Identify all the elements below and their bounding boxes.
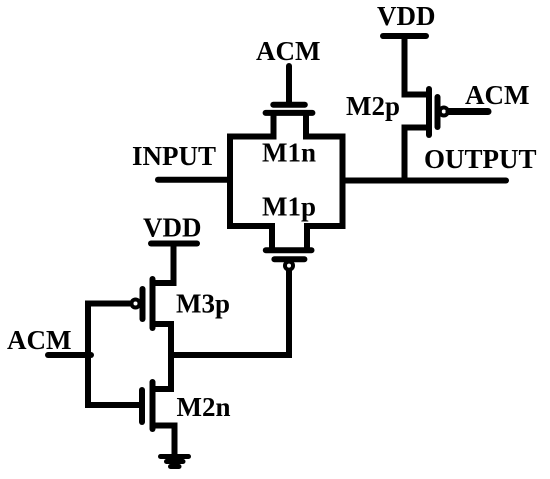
- transistor M2n gate bar: [139, 390, 145, 422]
- svg-text:VDD: VDD: [377, 1, 436, 31]
- svg-text:M2n: M2n: [177, 392, 231, 422]
- bubble on M3p gate: [130, 298, 142, 310]
- transistor M1p channel bar: [266, 247, 312, 253]
- wire VDD to M3p source stub: [153, 244, 174, 284]
- wire M3p drain to M2n drain (common node vertical): [153, 324, 172, 389]
- transistor M2p channel bar: [426, 89, 432, 135]
- wire M2n source down to ground: [153, 426, 175, 455]
- wire gate network: M3p gate down to M2n gate: [88, 304, 139, 406]
- svg-text:ACM: ACM: [256, 36, 320, 66]
- svg-text:ACM: ACM: [7, 325, 71, 355]
- wire left half of transmission-gate loop (M1n source to M1p source): [230, 112, 274, 251]
- svg-text:M1n: M1n: [262, 138, 316, 168]
- transistor M3p gate bar: [140, 289, 146, 319]
- transistor M1n gate bar: [273, 102, 305, 108]
- svg-text:ACM: ACM: [465, 80, 529, 110]
- svg-text:M1p: M1p: [262, 192, 316, 222]
- transistor M2p gate bar: [435, 97, 441, 127]
- transistor M3p channel bar: [150, 279, 156, 328]
- bubble on M1p gate: [283, 260, 295, 272]
- svg-text:M2p: M2p: [346, 91, 400, 121]
- VDD rail bar (top right): [383, 33, 426, 39]
- wire INPUT: [158, 177, 230, 183]
- wire common node to M1p gate bubble: [171, 269, 289, 355]
- wire M2p gate to ACM: [449, 108, 488, 115]
- VDD rail bar (lower left): [151, 241, 197, 247]
- transistor M1p gate bar: [274, 256, 304, 262]
- svg-text:INPUT: INPUT: [132, 141, 216, 171]
- wire ACM input: [48, 352, 91, 358]
- ground: [161, 457, 189, 467]
- transistor M2n channel bar: [150, 382, 156, 429]
- wire OUTPUT: [343, 178, 507, 184]
- svg-text:VDD: VDD: [143, 213, 202, 243]
- svg-text:M3p: M3p: [176, 289, 230, 319]
- wire ACM to M1n gate: [286, 66, 292, 103]
- transistor M1n channel bar: [266, 110, 313, 116]
- wire right half of transmission-gate loop (M1n drain to M1p drain): [306, 112, 343, 251]
- bubble on M2p gate: [438, 106, 450, 118]
- svg-text:OUTPUT: OUTPUT: [424, 144, 537, 174]
- wire M2p drain down to OUTPUT: [405, 128, 430, 181]
- wire VDD to M2p source stub: [405, 34, 430, 95]
